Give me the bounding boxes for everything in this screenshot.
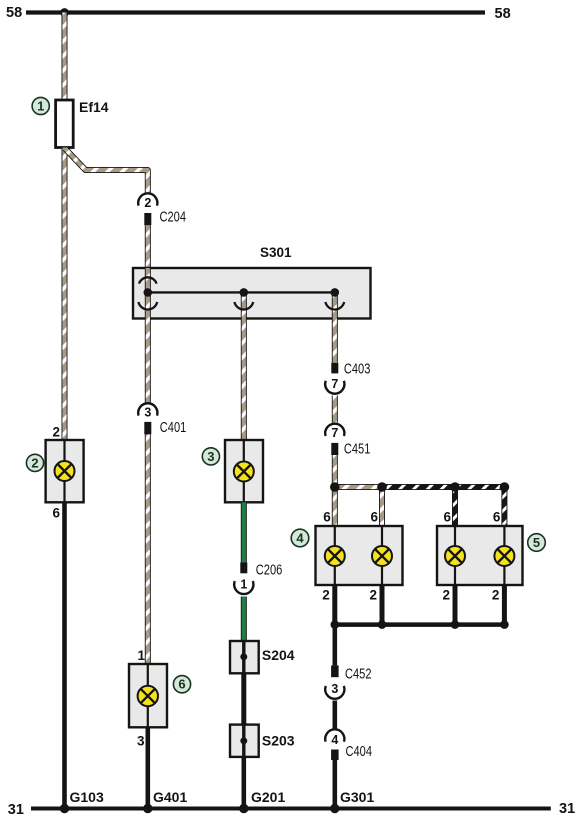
bus 31: [31, 807, 551, 811]
svg-text:4: 4: [331, 733, 338, 747]
connector C452 pin 3 cup: [325, 686, 344, 699]
svg-text:6: 6: [178, 677, 185, 692]
svg-text:31: 31: [559, 801, 575, 817]
svg-text:2: 2: [31, 455, 38, 470]
splice S204: [230, 641, 259, 673]
fuse Ef14: [56, 100, 74, 148]
pin 2 labels E4 E5: [322, 588, 499, 603]
svg-text:C204: C204: [160, 209, 187, 225]
wire: S301 left to C401: [145, 319, 151, 403]
svg-text:C404: C404: [346, 744, 373, 760]
svg-text:3: 3: [144, 406, 151, 420]
wire: S204 to S203: [241, 673, 246, 724]
connector C404 pin 4 arch: [325, 729, 344, 741]
node: feed junction 1: [330, 482, 340, 492]
svg-text:S204: S204: [262, 647, 295, 663]
svg-text:G103: G103: [70, 789, 104, 805]
wire: fuse Ef14 to lamp (column 1): [62, 148, 68, 441]
connector C401 terminal: [144, 422, 151, 435]
svg-text:2: 2: [442, 588, 450, 603]
splice S203: [230, 725, 259, 757]
wire: drop to lamp E5 right: [501, 487, 507, 526]
wire: E4 left to ground link: [332, 585, 337, 625]
svg-text:31: 31: [8, 802, 24, 818]
svg-text:1: 1: [137, 648, 145, 663]
wire: branch fuse to C204: [65, 149, 148, 193]
svg-text:2: 2: [322, 588, 330, 603]
svg-text:6: 6: [370, 510, 378, 525]
wire: lamp E2 to ground bus: [62, 502, 67, 807]
svg-text:6: 6: [443, 510, 451, 525]
ground node G301: [330, 804, 339, 813]
svg-text:7: 7: [331, 377, 338, 391]
pin 6 labels E4 E5: [323, 510, 501, 525]
wire: S301 left leg (through box): [145, 268, 151, 319]
svg-text:S203: S203: [262, 733, 295, 749]
callout 1: [32, 97, 49, 114]
wire: drop to lamp E4 right: [379, 487, 385, 526]
ground node G401: [143, 804, 152, 813]
lamp cluster E5: [437, 526, 523, 585]
callout 6: [173, 676, 190, 693]
wire: drop to lamp E4 left: [332, 487, 338, 526]
wire: lamp E6 to ground bus: [146, 727, 151, 807]
callout 3: [202, 448, 219, 465]
wire: E4 right to ground link: [380, 585, 385, 625]
callout 5: [528, 534, 546, 552]
wire: C452 to C404: [332, 701, 337, 729]
svg-text:7: 7: [331, 426, 338, 440]
ground link nodes: [331, 620, 509, 629]
wire: C204 to S301: [145, 225, 151, 268]
svg-text:3: 3: [207, 449, 214, 464]
svg-text:1: 1: [37, 99, 44, 114]
svg-text:C452: C452: [345, 666, 372, 682]
callout 2: [26, 454, 43, 471]
ground node G103: [60, 804, 69, 813]
connector C204 pin 2 arch: [138, 193, 157, 205]
connector C452 terminal: [331, 665, 339, 677]
lamp E3: [225, 440, 263, 502]
connector C401 pin 3 arch: [138, 403, 157, 415]
wire: E5 right to ground link: [502, 585, 507, 625]
wire: feed bus striped section: [382, 484, 504, 490]
wire: S203 to ground bus: [242, 757, 247, 807]
connector C206 pin 1 cup: [234, 581, 253, 594]
wire: C401 to lamp E6: [145, 434, 151, 664]
connector C206 terminal: [240, 562, 247, 573]
svg-text:C451: C451: [344, 442, 371, 458]
svg-text:Ef14: Ef14: [79, 99, 109, 115]
node: feed junction 3: [450, 482, 460, 492]
svg-text:C403: C403: [344, 362, 371, 378]
lamp E2: [46, 440, 84, 502]
S301 middle node: [234, 288, 253, 309]
svg-text:4: 4: [296, 531, 304, 546]
svg-text:3: 3: [137, 733, 145, 748]
connector C403 pin 7 cup: [325, 381, 344, 394]
svg-text:C401: C401: [160, 420, 187, 436]
connector C204 terminal: [144, 213, 151, 225]
wire: S301 middle to lamp E3: [241, 292, 247, 440]
node: feed junction 4: [500, 482, 510, 492]
svg-text:6: 6: [493, 510, 501, 525]
node: bus 58 / Ef14 tap: [60, 8, 69, 17]
wire: feed bus tan section: [335, 484, 382, 490]
svg-text:2: 2: [144, 196, 151, 210]
svg-text:58: 58: [6, 5, 22, 21]
svg-text:58: 58: [495, 6, 511, 22]
connector C451 pin 7 arch: [325, 424, 344, 436]
bus 58: [26, 10, 485, 14]
svg-text:G401: G401: [153, 789, 187, 805]
connector C403 terminal: [331, 363, 338, 374]
node: feed junction 2: [377, 482, 387, 492]
wire: C451 to junction: [332, 455, 338, 487]
lamp cluster E4: [316, 526, 403, 585]
wire: C206 to S204 green: [241, 597, 247, 642]
svg-text:1: 1: [240, 577, 247, 591]
ground node G201: [239, 804, 248, 813]
connector C451 terminal: [331, 443, 338, 455]
svg-text:5: 5: [533, 535, 540, 550]
wire: E5 left to ground link: [453, 585, 458, 625]
svg-text:G301: G301: [340, 789, 374, 805]
wire: C404 to ground bus: [332, 760, 337, 807]
svg-text:2: 2: [52, 425, 60, 440]
svg-text:G201: G201: [251, 789, 285, 805]
S301 right node: [325, 288, 344, 309]
splice box S301: [133, 268, 371, 319]
wire: lamp E3 to C206 green: [241, 502, 247, 562]
S301 left node: [138, 277, 157, 309]
svg-text:6: 6: [323, 510, 331, 525]
connector C404 terminal: [331, 750, 339, 761]
ground link bus: [335, 622, 505, 627]
lamp E6: [129, 664, 167, 727]
svg-text:C206: C206: [256, 563, 282, 579]
wire: bus 58 to fuse Ef14: [62, 13, 68, 101]
wire: ground link to C452: [332, 625, 337, 666]
callout 4: [291, 529, 309, 547]
wire: C403 to C451: [332, 396, 338, 423]
wire: drop to lamp E5 left: [452, 487, 458, 526]
svg-text:6: 6: [52, 506, 60, 521]
wire: S301 right to C403: [332, 292, 338, 363]
svg-text:2: 2: [369, 588, 377, 603]
svg-text:2: 2: [492, 588, 500, 603]
svg-text:3: 3: [331, 682, 338, 696]
S301 internal link: [148, 291, 335, 293]
svg-text:S301: S301: [260, 245, 292, 260]
